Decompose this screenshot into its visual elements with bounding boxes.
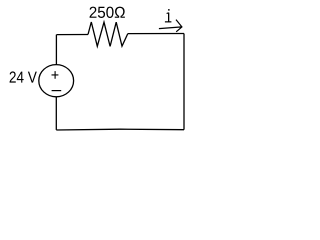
wire left lower (source to bottom) [55, 97, 57, 130]
wire top-right segment [128, 33, 184, 35]
minus terminal mark [52, 90, 62, 92]
wire left upper (top to source) [55, 35, 57, 65]
wire right side [183, 34, 185, 130]
plus terminal mark [52, 71, 59, 79]
source value label 24 V [10, 71, 37, 82]
resistor [88, 22, 128, 46]
current label i [165, 9, 172, 22]
current direction arrow [159, 20, 182, 32]
resistor value label 250Ω [90, 7, 125, 18]
wire top-left segment [57, 34, 89, 36]
voltage source circle [39, 65, 74, 97]
wire bottom [56, 128, 184, 131]
